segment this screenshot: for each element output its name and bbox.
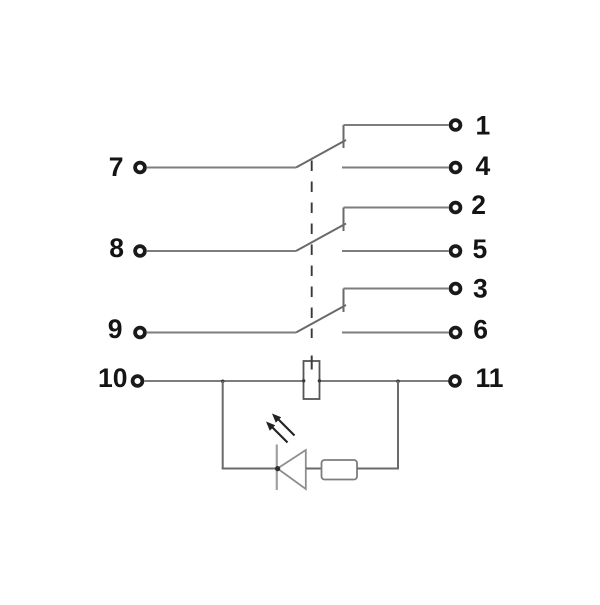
LED emission arrow upper xyxy=(272,414,295,436)
svg-text:11: 11 xyxy=(476,363,504,393)
wire common pole 9 xyxy=(147,332,296,334)
LED D1 triangle xyxy=(278,450,306,489)
pin 2 terminal xyxy=(451,203,461,213)
svg-text:5: 5 xyxy=(473,234,488,264)
pin 8 terminal xyxy=(135,246,145,256)
pin 5 terminal xyxy=(451,246,461,256)
wire to pin 5 xyxy=(342,250,449,252)
switch blade contact 8-2 xyxy=(296,224,346,252)
junction coil right lead xyxy=(318,379,321,382)
wire to pin 1 xyxy=(344,124,449,126)
wire to pin 3 xyxy=(344,288,449,290)
svg-text:6: 6 xyxy=(473,314,488,344)
pin 6 terminal xyxy=(451,328,461,338)
wire coil to pin 11 xyxy=(320,380,449,382)
junction main rail / right branch xyxy=(396,380,400,384)
resistor R1 xyxy=(322,460,358,480)
wire to pin 2 xyxy=(344,207,449,209)
coil actuator stub xyxy=(311,356,313,370)
junction main rail / left branch xyxy=(221,380,225,384)
wire NO stub row 1 xyxy=(343,125,345,148)
wire bottom branch to LED xyxy=(222,468,277,470)
wire NO stub row 2 xyxy=(343,208,345,232)
svg-text:7: 7 xyxy=(109,152,124,182)
wire to pin 6 xyxy=(342,332,449,334)
switch blade contact 7-1 xyxy=(296,140,346,168)
wire resistor to right branch xyxy=(357,468,399,470)
svg-text:4: 4 xyxy=(476,151,491,181)
wire left branch down xyxy=(222,381,224,469)
svg-text:8: 8 xyxy=(109,233,124,263)
coil K1 xyxy=(304,361,320,399)
svg-text:2: 2 xyxy=(471,190,486,220)
switch blade contact 9-3 xyxy=(296,305,346,333)
LED D1 cathode bar xyxy=(276,445,278,491)
pin 1 terminal xyxy=(451,120,461,130)
wire LED to resistor xyxy=(306,468,322,470)
pin 11 terminal xyxy=(450,376,460,386)
wire NO stub row 3 xyxy=(343,289,345,313)
pin 7 terminal xyxy=(135,163,145,173)
wire right branch up xyxy=(397,381,399,469)
wire main rail 10 to coil xyxy=(145,380,304,382)
pin 4 terminal xyxy=(451,163,461,173)
svg-text:3: 3 xyxy=(473,274,488,304)
wire to pin 4 xyxy=(342,167,449,169)
LED anode junction dot xyxy=(275,466,280,471)
mechanical linkage dashed line xyxy=(311,161,313,339)
wire common pole 8 xyxy=(147,250,296,252)
pin 3 terminal xyxy=(451,284,461,294)
LED emission arrow lower xyxy=(266,422,288,443)
svg-text:9: 9 xyxy=(108,314,123,344)
svg-text:1: 1 xyxy=(476,111,491,141)
pin 9 terminal xyxy=(135,328,145,338)
wire common pole 7 xyxy=(147,167,296,169)
junction coil left lead xyxy=(302,379,305,382)
svg-text:10: 10 xyxy=(98,363,127,393)
pin 10 terminal xyxy=(133,376,143,386)
